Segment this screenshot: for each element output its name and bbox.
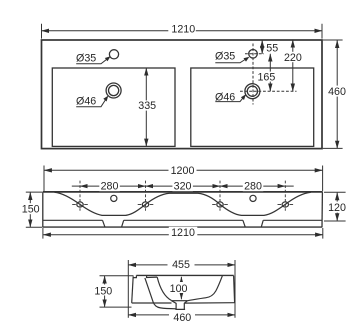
text 100 section bbox=[169, 282, 190, 293]
front view right edge bbox=[321, 192, 323, 227]
text 1210 bottom bbox=[169, 227, 198, 238]
dimension 455 bbox=[128, 264, 235, 266]
front view underside line segments bbox=[43, 219, 322, 221]
text 455 bbox=[168, 259, 195, 270]
svg-text:320: 320 bbox=[174, 181, 192, 193]
text 335 bbox=[137, 100, 158, 110]
section underside right bbox=[184, 302, 234, 304]
svg-text:1210: 1210 bbox=[171, 24, 195, 36]
dimension 320 middle bbox=[146, 185, 221, 187]
svg-text:220: 220 bbox=[284, 52, 302, 64]
dimension 460 bottom bbox=[128, 314, 235, 316]
text 280 right bbox=[243, 180, 263, 191]
dimension 460 (right of plan) bbox=[336, 40, 338, 148]
right overflow hole bbox=[250, 195, 256, 201]
svg-text:100: 100 bbox=[170, 283, 188, 295]
svg-text:280: 280 bbox=[101, 181, 119, 193]
svg-text:165: 165 bbox=[257, 71, 275, 83]
text 150 section bbox=[94, 285, 114, 296]
text 220 bbox=[283, 52, 304, 62]
dimension 100 section bbox=[180, 277, 182, 300]
section bowl interior right rising to rim bbox=[187, 276, 222, 301]
dimension 220 line bbox=[292, 40, 294, 91]
fixing hole 3 bbox=[217, 202, 223, 207]
left drain hole circles bbox=[106, 83, 121, 98]
svg-text:Ø35: Ø35 bbox=[76, 52, 96, 64]
dimension 55 arrow bbox=[261, 40, 263, 54]
fixing hole 2 bbox=[142, 202, 148, 207]
dimension 280 right bbox=[220, 185, 285, 187]
text 120 right bbox=[327, 202, 348, 213]
dashed vertical centerline right basin bbox=[252, 44, 254, 105]
svg-text:150: 150 bbox=[94, 286, 112, 298]
leader line label O46 left bbox=[76, 98, 107, 107]
leader line label O46 right bbox=[215, 96, 244, 102]
right basin rectangle bbox=[191, 68, 314, 146]
right drain trap bbox=[243, 220, 263, 227]
dimension 150 front bbox=[29, 192, 31, 227]
dashed horizontal centerline through right tap bbox=[245, 53, 264, 55]
text 150 front bbox=[21, 203, 40, 214]
text 1210 top bbox=[168, 25, 196, 35]
svg-text:280: 280 bbox=[244, 181, 262, 193]
right drain hole circles bbox=[245, 84, 260, 99]
section back panel slant and foot bbox=[145, 278, 176, 309]
section drain funnel and stub bbox=[172, 301, 188, 310]
svg-text:335: 335 bbox=[138, 100, 156, 112]
text 460 right plan bbox=[326, 86, 348, 97]
dimension 150 section bbox=[104, 276, 106, 307]
svg-text:460: 460 bbox=[173, 312, 191, 324]
svg-text:Ø46: Ø46 bbox=[215, 92, 235, 104]
section extension line right bbox=[234, 260, 236, 318]
svg-text:120: 120 bbox=[328, 202, 346, 214]
svg-text:460: 460 bbox=[328, 86, 346, 98]
dimension 120 right bbox=[336, 193, 338, 221]
text 165 bbox=[256, 72, 277, 82]
left drain trap bbox=[103, 220, 124, 227]
front view left edge bbox=[42, 192, 44, 227]
svg-text:150: 150 bbox=[22, 204, 40, 216]
leader line label O35 left bbox=[76, 58, 108, 64]
section back panel left face bbox=[132, 276, 134, 303]
text 1200 bbox=[169, 165, 197, 176]
plan view outer rectangle (vanity top 1210x460) bbox=[42, 40, 323, 149]
dimension 280 left bbox=[72, 185, 80, 187]
fixing hole 1 bbox=[77, 202, 83, 207]
svg-text:1210: 1210 bbox=[171, 227, 195, 239]
front view top edge bbox=[43, 191, 323, 193]
section bowl interior left bbox=[157, 277, 171, 300]
dimension 1210 bottom bbox=[43, 234, 323, 236]
front view bottom edge bbox=[43, 226, 323, 228]
basin profile curve bbox=[55, 192, 311, 215]
svg-text:Ø46: Ø46 bbox=[76, 95, 96, 107]
section bowl floor / funnel top bbox=[172, 300, 188, 302]
left basin rectangle bbox=[52, 68, 175, 146]
section extension line left bbox=[127, 260, 129, 318]
section back tab and deck bbox=[133, 275, 157, 277]
dimension 335 line bbox=[145, 68, 147, 146]
text 460 bottom bbox=[169, 311, 195, 322]
right tap hole circle bbox=[249, 50, 258, 59]
leader line label O35 right bbox=[215, 58, 247, 63]
left tap hole circle bbox=[109, 50, 118, 59]
fixing hole 4 bbox=[282, 202, 288, 207]
svg-text:455: 455 bbox=[172, 259, 190, 271]
svg-text:Ø35: Ø35 bbox=[215, 51, 235, 63]
section right edge bbox=[234, 276, 235, 303]
text 320 bbox=[172, 180, 193, 191]
svg-text:1200: 1200 bbox=[171, 165, 195, 177]
text 280 left bbox=[99, 180, 120, 191]
svg-text:55: 55 bbox=[266, 43, 278, 55]
dashed horizontal centerline through right drain bbox=[240, 90, 297, 92]
dimension 165 line bbox=[269, 54, 271, 91]
left overflow hole bbox=[111, 195, 117, 201]
dimension 1210 (top) bbox=[42, 30, 323, 32]
section top rim line bbox=[136, 274, 233, 276]
dimension 1200 bbox=[44, 169, 322, 171]
section back panel bottom bbox=[132, 302, 172, 304]
